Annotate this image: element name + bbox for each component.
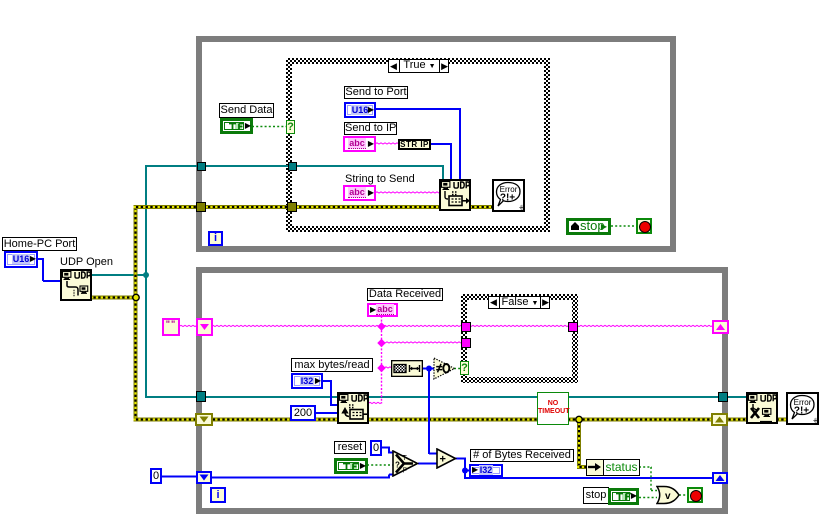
junction: string node — [377, 339, 385, 347]
wire: Home-PC Port out — [38, 258, 44, 260]
wire: string length out — [422, 368, 436, 370]
wire: stop 2 to Or — [639, 497, 657, 499]
wire: reset to select — [367, 464, 393, 466]
control: reset TF — [334, 458, 368, 474]
subVI: NO TIMEOUT (clear timeout error) — [537, 392, 569, 425]
wire: status out — [639, 466, 652, 468]
error wire: vertical trunk — [134, 205, 138, 422]
wire: empty string to shift reg — [179, 325, 197, 326]
label: # of Bytes Received — [470, 449, 574, 462]
control: Send to IP — [343, 136, 376, 152]
svg-text:F: F — [403, 468, 407, 475]
control: String to Send — [343, 185, 376, 201]
wire: shift reg to select — [211, 477, 390, 479]
control: max bytes/read I32 — [291, 373, 323, 389]
constant: 0 (init) — [150, 468, 162, 484]
case 1 selector terminal ? — [286, 120, 295, 134]
tunnel: error into loop 1 — [196, 202, 206, 212]
wire: string to case tunnel — [381, 342, 462, 343]
wire: teal vertical trunk — [145, 166, 147, 398]
tunnel: string into case 2 (a) — [461, 322, 471, 332]
wire — [388, 448, 390, 454]
label: reset — [334, 441, 366, 454]
indicator: # of Bytes Received I32 — [469, 464, 503, 477]
wire: teal across bottom loop — [145, 396, 722, 398]
wire: UDP Read data out — [368, 402, 382, 403]
label: Home-PC Port — [2, 237, 77, 251]
svg-text:v: v — [665, 491, 671, 502]
wire: 200 to UDP Read — [315, 412, 339, 414]
error wire: down to unbundle — [577, 418, 581, 468]
wire: String to Send — [375, 192, 440, 193]
svg-text:?: ? — [395, 461, 400, 470]
error wire: into unbundle — [577, 465, 587, 469]
case structure 2 (False case) — [461, 294, 578, 383]
svg-text:⁜: ⁜ — [813, 417, 819, 425]
wire: string to String Length — [380, 367, 392, 368]
function: UDP Write icon — [439, 179, 471, 211]
junction: string node — [377, 322, 385, 330]
tunnel: string into case 2 (b) — [461, 338, 471, 348]
shift register: count right — [712, 472, 728, 484]
loop 1 iteration terminal — [208, 231, 223, 246]
wire: UDP Open conn-id out — [92, 274, 147, 276]
function: Unbundle By Name (status) — [586, 459, 604, 476]
shift register: error right — [711, 413, 728, 426]
label: Send Data — [219, 103, 274, 118]
label: UDP Open — [60, 256, 113, 268]
label: Data Received — [367, 288, 443, 301]
wire: to # of Bytes indicator — [465, 470, 470, 472]
wire: STR IP out — [430, 143, 452, 145]
error wire: UDP Open error out — [91, 296, 138, 300]
function: Select — [392, 450, 419, 477]
tunnel: conn-id into case 1 — [288, 162, 297, 171]
tunnel: error into case 1 — [287, 202, 297, 212]
function: Simple Error Handler (loop 1) — [492, 179, 525, 212]
tunnel: conn-id into loop 1 — [197, 162, 206, 171]
wire: port into UDP Open — [43, 280, 61, 282]
constant: empty string — [162, 318, 180, 336]
indicator: Data Received — [367, 303, 398, 317]
constant: 0 (select) — [370, 440, 382, 456]
wire: max bytes/read — [322, 380, 332, 382]
function: UDP Read icon — [337, 392, 369, 424]
wire: Or out to loop condition — [679, 494, 688, 496]
tunnel: conn-id into loop 2 — [196, 391, 206, 402]
case 2 selector terminal ? — [460, 361, 469, 375]
label: Send to IP — [344, 122, 397, 135]
wire — [330, 381, 332, 406]
wire — [388, 475, 390, 478]
junction: blue node — [462, 468, 468, 474]
control: Home-PC Port U16 — [4, 251, 38, 268]
shift register: string right — [712, 320, 729, 334]
label: stop — [583, 487, 609, 504]
svg-text:?!+: ?!+ — [500, 193, 515, 204]
wire: received string main run — [211, 325, 714, 326]
wire — [429, 453, 437, 455]
wire: Send to Port — [375, 108, 461, 110]
element: status field — [603, 459, 640, 476]
error wire: across bottom loop — [134, 418, 715, 422]
wire: Send to IP string — [375, 143, 399, 144]
tunnel: string out of case 2 — [568, 322, 578, 332]
wire: stop to loop condition — [611, 225, 637, 227]
error wire: into top loop to error handler — [134, 205, 494, 209]
wire — [389, 474, 393, 476]
wire — [650, 467, 652, 491]
function: Or — [656, 485, 681, 505]
wire: teal into top loop — [145, 165, 444, 167]
wire: string vertical — [381, 316, 383, 404]
wire: 0 to select — [381, 447, 390, 449]
loop 2 stop terminal — [687, 487, 703, 503]
wire: Send Data to case selector — [252, 126, 288, 128]
wire: into Or — [651, 490, 657, 492]
control: stop TF (loop 2) — [608, 488, 639, 505]
wire — [459, 109, 461, 180]
wire — [450, 144, 452, 180]
wire — [331, 404, 339, 406]
control: stop (loop 1) — [566, 218, 611, 235]
junction: error wire node — [576, 416, 582, 422]
label: String to Send — [345, 173, 415, 185]
constant: 200 — [290, 405, 316, 421]
label: max bytes/read — [291, 358, 373, 372]
junction: blue node — [426, 366, 432, 372]
shift register: error left — [195, 413, 213, 426]
function: UDP Close icon — [746, 392, 778, 424]
junction: error wire node — [133, 294, 139, 300]
wire: teal down to UDP Write — [442, 165, 444, 180]
function: String Length — [391, 360, 423, 377]
svg-text:T: T — [403, 455, 408, 462]
wire — [42, 258, 44, 281]
wire: length down to add — [428, 369, 430, 455]
error wire: to UDP Close / error handler — [726, 418, 788, 422]
loop 1 stop terminal — [636, 218, 652, 234]
wire: add out — [455, 458, 466, 460]
shift register: string left — [196, 318, 213, 336]
shift register: count left — [196, 471, 212, 484]
function: UDP Open icon — [60, 269, 92, 301]
svg-text:?!+: ?!+ — [794, 406, 809, 417]
wire: comparison to case selector — [454, 368, 462, 370]
wire: teal to UDP Close — [728, 396, 748, 398]
wire: select out to add — [418, 463, 437, 465]
case 1 selector label — [388, 59, 449, 73]
label: Send to Port — [344, 86, 408, 99]
junction: teal node — [143, 272, 149, 278]
while loop 1 (send loop) border — [196, 36, 676, 252]
while loop 2 (receive loop) border — [196, 267, 728, 514]
function: Add — [436, 448, 457, 469]
svg-text:+: + — [440, 454, 446, 466]
wire — [464, 459, 466, 480]
loop 2 iteration terminal — [210, 487, 226, 503]
wire — [389, 452, 393, 454]
control: Send to Port U16 — [344, 102, 376, 118]
tunnel: conn-id out of loop 2 — [718, 392, 728, 402]
junction: string node — [377, 364, 385, 372]
case structure 1 (True case) — [286, 58, 550, 232]
function: Simple Error Handler (loop 2) — [786, 392, 819, 425]
wire: 0 constant to shift reg — [161, 476, 197, 478]
function: Not Equal To 0? — [433, 357, 456, 380]
control: Send Data TF — [220, 118, 253, 134]
function: String To IP (STR IP) — [398, 139, 431, 150]
svg-text:⁜: ⁜ — [519, 204, 525, 212]
wire: to right shift reg — [465, 477, 713, 479]
case 2 selector label — [488, 296, 550, 309]
